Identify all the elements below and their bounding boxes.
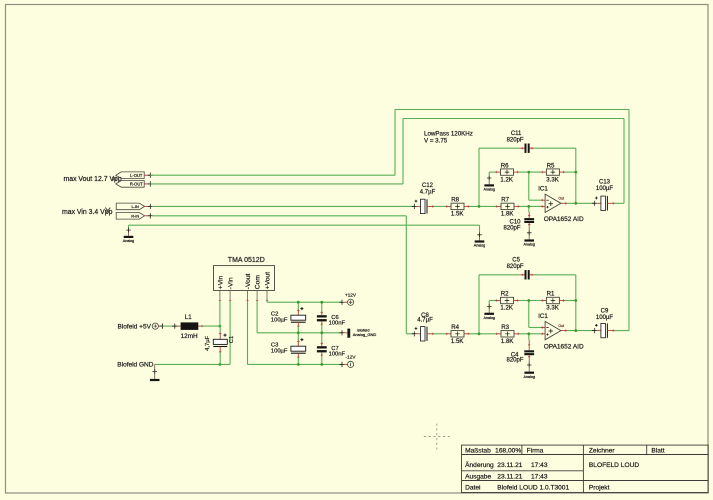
svg-text:R-IN: R-IN [131,213,139,218]
wire feedback right vertical (upper) [575,148,577,203]
svg-text:Datei: Datei [465,484,481,491]
svg-text:820pF: 820pF [503,226,520,232]
wire R-IN net [152,215,406,217]
ground (R6) [483,176,494,192]
capacitor C3 [271,333,306,365]
op-amp IC1 (upper) [538,186,584,224]
svg-text:Out: Out [558,324,564,328]
svg-text:Blofeld LOUD 1.0.T3001: Blofeld LOUD 1.0.T3001 [497,484,569,491]
svg-text:V = 3.75: V = 3.75 [424,138,448,145]
op-amp IC1 (lower) [538,313,584,351]
junction node R2R1 [527,299,530,302]
wire +12V row [267,301,342,303]
wire L-OUT top run [395,109,629,111]
wire +5V to L1 [162,325,174,327]
svg-text:820pF: 820pF [507,264,524,270]
wire C7 bottom stub [321,356,323,365]
wire opamp out (lower) [566,330,595,332]
resistor R2 [495,291,519,312]
svg-text:R6: R6 [501,162,509,169]
wire L-OUT right vertical [628,110,630,331]
supply symbol -12V [339,354,356,367]
capacitor C6 [317,302,346,333]
svg-text:Analog: Analog [474,244,485,248]
wire R2R1 to inv input [528,301,530,328]
svg-text:Analog: Analog [483,188,494,192]
wire R-OUT vertical [402,119,404,184]
svg-text:C13: C13 [599,179,611,185]
wire C13 to vertical [613,202,624,204]
svg-text:17:43: 17:43 [531,462,548,469]
junction node R6R5 [527,171,530,174]
supply symbol +5V [152,323,160,329]
wire C5 row right [534,274,576,276]
svg-text:R8: R8 [451,197,459,204]
svg-text:17:43: 17:43 [531,474,548,481]
svg-text:1.5K: 1.5K [451,338,464,345]
wire C3 bottom stub [297,358,299,365]
wire C1 bottom stub [219,353,221,365]
wire +Vin down [219,301,221,326]
svg-text:100µF: 100µF [596,315,613,321]
svg-text:C1: C1 [229,336,235,343]
wire -Vin down to GND row [229,301,231,365]
svg-text:-Vout: -Vout [245,273,252,289]
wire C4 tap [528,334,530,340]
svg-text:R7: R7 [501,197,509,204]
svg-text:R5: R5 [547,162,555,169]
wire R-IN vertical [405,216,407,334]
wire Com down [256,301,258,333]
svg-text:Firma: Firma [527,447,544,454]
svg-text:IC1: IC1 [538,313,548,320]
svg-text:+12V: +12V [345,292,357,297]
svg-text:R4: R4 [451,324,459,331]
svg-text:Änderung: Änderung [465,461,494,469]
wire Com row [257,332,342,334]
wire -12V row [248,363,343,365]
svg-text:+Vout: +Vout [264,272,271,289]
wire C10 tap [528,206,530,211]
svg-text:Projekt: Projekt [589,484,610,491]
wire-end cross +5V [160,324,165,329]
svg-text:TMA 0512D: TMA 0512D [228,257,265,264]
capacitor C11 [507,131,534,153]
junction [297,301,300,304]
wire R2 to ground [489,300,496,302]
wire R-OUT top run [403,118,624,120]
capacitor C13 [592,179,614,210]
ground (C4) [523,357,534,379]
wire L-IN to C12 [152,205,414,207]
wire analog reference [129,224,480,226]
capacitor C7 [317,333,346,365]
svg-text:4.7µF: 4.7µF [417,318,433,324]
junction node R5 fb [574,171,577,174]
wire to inv input (lower) [529,327,542,329]
svg-text:max Vout 12.7 Vpp: max Vout 12.7 Vpp [64,176,122,183]
capacitor C12 [412,183,436,214]
svg-text:max Vin 3.4 Vpp: max Vin 3.4 Vpp [62,209,113,216]
net flag L-OUT [116,172,153,179]
capacitor C8 [412,313,434,341]
junction +5V/C1/+Vin [219,325,222,328]
junction node A upper [478,205,481,208]
svg-text:Analog: Analog [523,375,534,379]
svg-text:C5: C5 [512,258,520,264]
svg-text:820pF: 820pF [506,357,523,363]
junction [320,363,323,366]
sheet center marker [424,424,450,450]
wire feedback right vertical (lower) [575,275,577,331]
svg-text:4.7µF: 4.7µF [420,190,436,196]
capacitor C2 [271,302,306,333]
svg-text:1.8K: 1.8K [501,338,514,345]
flag pair marker (out) [112,177,117,181]
net flag R-IN [116,213,153,220]
svg-text:+Vin: +Vin [217,275,224,289]
svg-text:-Vin: -Vin [228,277,235,289]
wire R-OUT right vertical [623,119,625,204]
wire C11 row right [534,147,576,149]
wire R3-opamp [518,333,542,335]
svg-text:4,7µF: 4,7µF [205,335,211,350]
svg-text:L1: L1 [185,314,192,321]
wire R8-R7 [468,205,497,207]
junction node out upper [574,202,577,205]
svg-text:12mH: 12mH [181,333,198,340]
junction node A lower [478,332,481,335]
ground (Blofeld GND) [150,364,160,381]
wire nodeA left vertical (lower) [478,275,480,334]
svg-text:1.2K: 1.2K [500,305,513,312]
svg-text:BLOFELD LOUD: BLOFELD LOUD [589,462,639,469]
supply symbol +12V [339,292,357,305]
svg-text:Analog: Analog [523,243,534,247]
wire GND row [155,363,230,365]
capacitor C5 [507,258,534,280]
svg-text:OPA1652 AID: OPA1652 AID [544,216,584,223]
wire R4-R3 [468,333,497,335]
flag pair marker (in) [105,208,110,214]
svg-text:C2: C2 [271,312,278,318]
wire R2 ground stub [488,301,490,305]
capacitor C9 [592,308,614,338]
ground (analog, near flags) [123,228,134,243]
svg-text:Ausgabe: Ausgabe [465,474,491,481]
svg-text:100µF: 100µF [596,186,613,192]
svg-text:Com: Com [255,275,262,290]
svg-text:Blofeld +5V: Blofeld +5V [118,323,152,330]
wire gnd stub right [479,225,481,232]
svg-text:1.2K: 1.2K [500,176,513,183]
svg-text:R3: R3 [501,324,509,331]
wire R6 to ground [489,171,496,173]
wire C2 bottom stub [297,327,299,333]
svg-text:OPA1652 AID: OPA1652 AID [544,343,584,350]
wire L-OUT net [150,174,395,176]
wire R7-opamp [518,205,542,207]
svg-text:LowPass 120KHz: LowPass 120KHz [424,130,473,137]
svg-text:C10: C10 [509,219,521,225]
wire C9 to vertical [613,330,629,332]
svg-text:Analog_GND: Analog_GND [353,332,377,337]
svg-text:1.8K: 1.8K [501,211,514,218]
wire C12-R8 [433,205,447,207]
junction node C4 tap [527,332,530,335]
svg-text:R2: R2 [501,291,509,298]
svg-text:R-OUT: R-OUT [130,181,143,186]
junction [297,331,300,334]
wire to C8 [406,333,414,335]
wire nodeA left vertical (upper) [478,148,480,206]
junction node C10 tap [527,205,530,208]
ground (R2) [483,304,494,320]
wire +Vout down [266,301,268,303]
svg-text:3.3K: 3.3K [546,176,559,183]
svg-text:100µF: 100µF [271,349,288,355]
svg-text:23.11.21: 23.11.21 [497,462,523,469]
TMA 0512D DC-DC converter U1 [214,257,275,302]
junction C1/GND [219,363,222,366]
wire R6R5 to inv input [528,172,530,200]
wire C11 row left [479,147,520,149]
svg-text:1.5K: 1.5K [451,211,464,218]
wire C2 top stub [297,302,299,310]
junction [297,363,300,366]
svg-text:Maßstab: Maßstab [465,447,491,454]
wire C6 bottom stub [321,325,323,333]
ground (analog, mid) [474,232,485,248]
wire R2-R1 [518,300,542,302]
resistor R1 [541,291,565,312]
svg-text:168,00%: 168,00% [495,447,521,454]
junction [320,301,323,304]
junction node out lower [574,329,577,332]
inductor L1 [172,314,203,340]
svg-text:C11: C11 [511,131,522,137]
svg-text:23.11.21: 23.11.21 [497,474,523,481]
wire C1 top stub [219,326,221,333]
svg-text:820pF: 820pF [507,138,524,144]
resistor R4 [446,324,470,345]
resistor R5 [541,162,565,183]
svg-text:Analog: Analog [123,239,134,243]
capacitor C10 [503,212,534,232]
ground (C10) [523,225,534,247]
svg-text:Blatt: Blatt [651,447,664,454]
wire R5 right [563,171,576,173]
junction node R1 fb [574,299,577,302]
resistor R8 [446,197,470,218]
wire R6-R5 [518,171,542,173]
wire L-OUT vertical [394,110,396,176]
wire R1 right [563,300,576,302]
resistor R3 [496,324,520,345]
svg-text:3.3K: 3.3K [546,305,559,312]
capacitor C1 [205,326,235,364]
wire -Vout down [247,301,249,365]
wire C3 top stub [297,333,299,341]
resistor R6 [495,162,519,183]
net flag R-OUT [116,181,153,188]
svg-text:Analog: Analog [483,316,494,320]
wire opamp out (upper) [566,202,595,204]
wire R-OUT net [150,183,403,185]
svg-text:Out: Out [558,197,564,201]
svg-text:R1: R1 [547,291,555,298]
power bar Analog_GND [339,328,376,338]
svg-text:C9: C9 [601,308,609,314]
svg-text:100µF: 100µF [271,318,288,324]
wire C8-R4 [433,333,447,335]
svg-text:-12V: -12V [346,354,357,359]
svg-text:L-OUT: L-OUT [130,173,143,178]
svg-text:C3: C3 [271,343,278,349]
wire C7 top stub [321,333,323,343]
svg-text:L-IN: L-IN [132,204,140,209]
title block [462,445,709,492]
svg-text:IC1: IC1 [538,186,548,193]
svg-text:Blofeld GND: Blofeld GND [117,362,153,369]
resistor R7 [496,197,520,218]
capacitor C4 [506,340,534,364]
svg-text:Zeichner: Zeichner [589,447,615,454]
wire gnd stub left [128,225,130,229]
svg-text:100nF: 100nF [329,321,346,327]
wire C6 top stub [321,302,323,312]
wire L1 to +Vin node [202,325,220,327]
junction [320,331,323,334]
svg-text:C12: C12 [422,183,434,189]
wire to inv input [529,199,542,201]
wire R6 ground stub [488,172,490,176]
svg-text:100nF: 100nF [329,352,346,358]
wire C5 row left [479,274,520,276]
net flag L-IN [116,203,153,210]
